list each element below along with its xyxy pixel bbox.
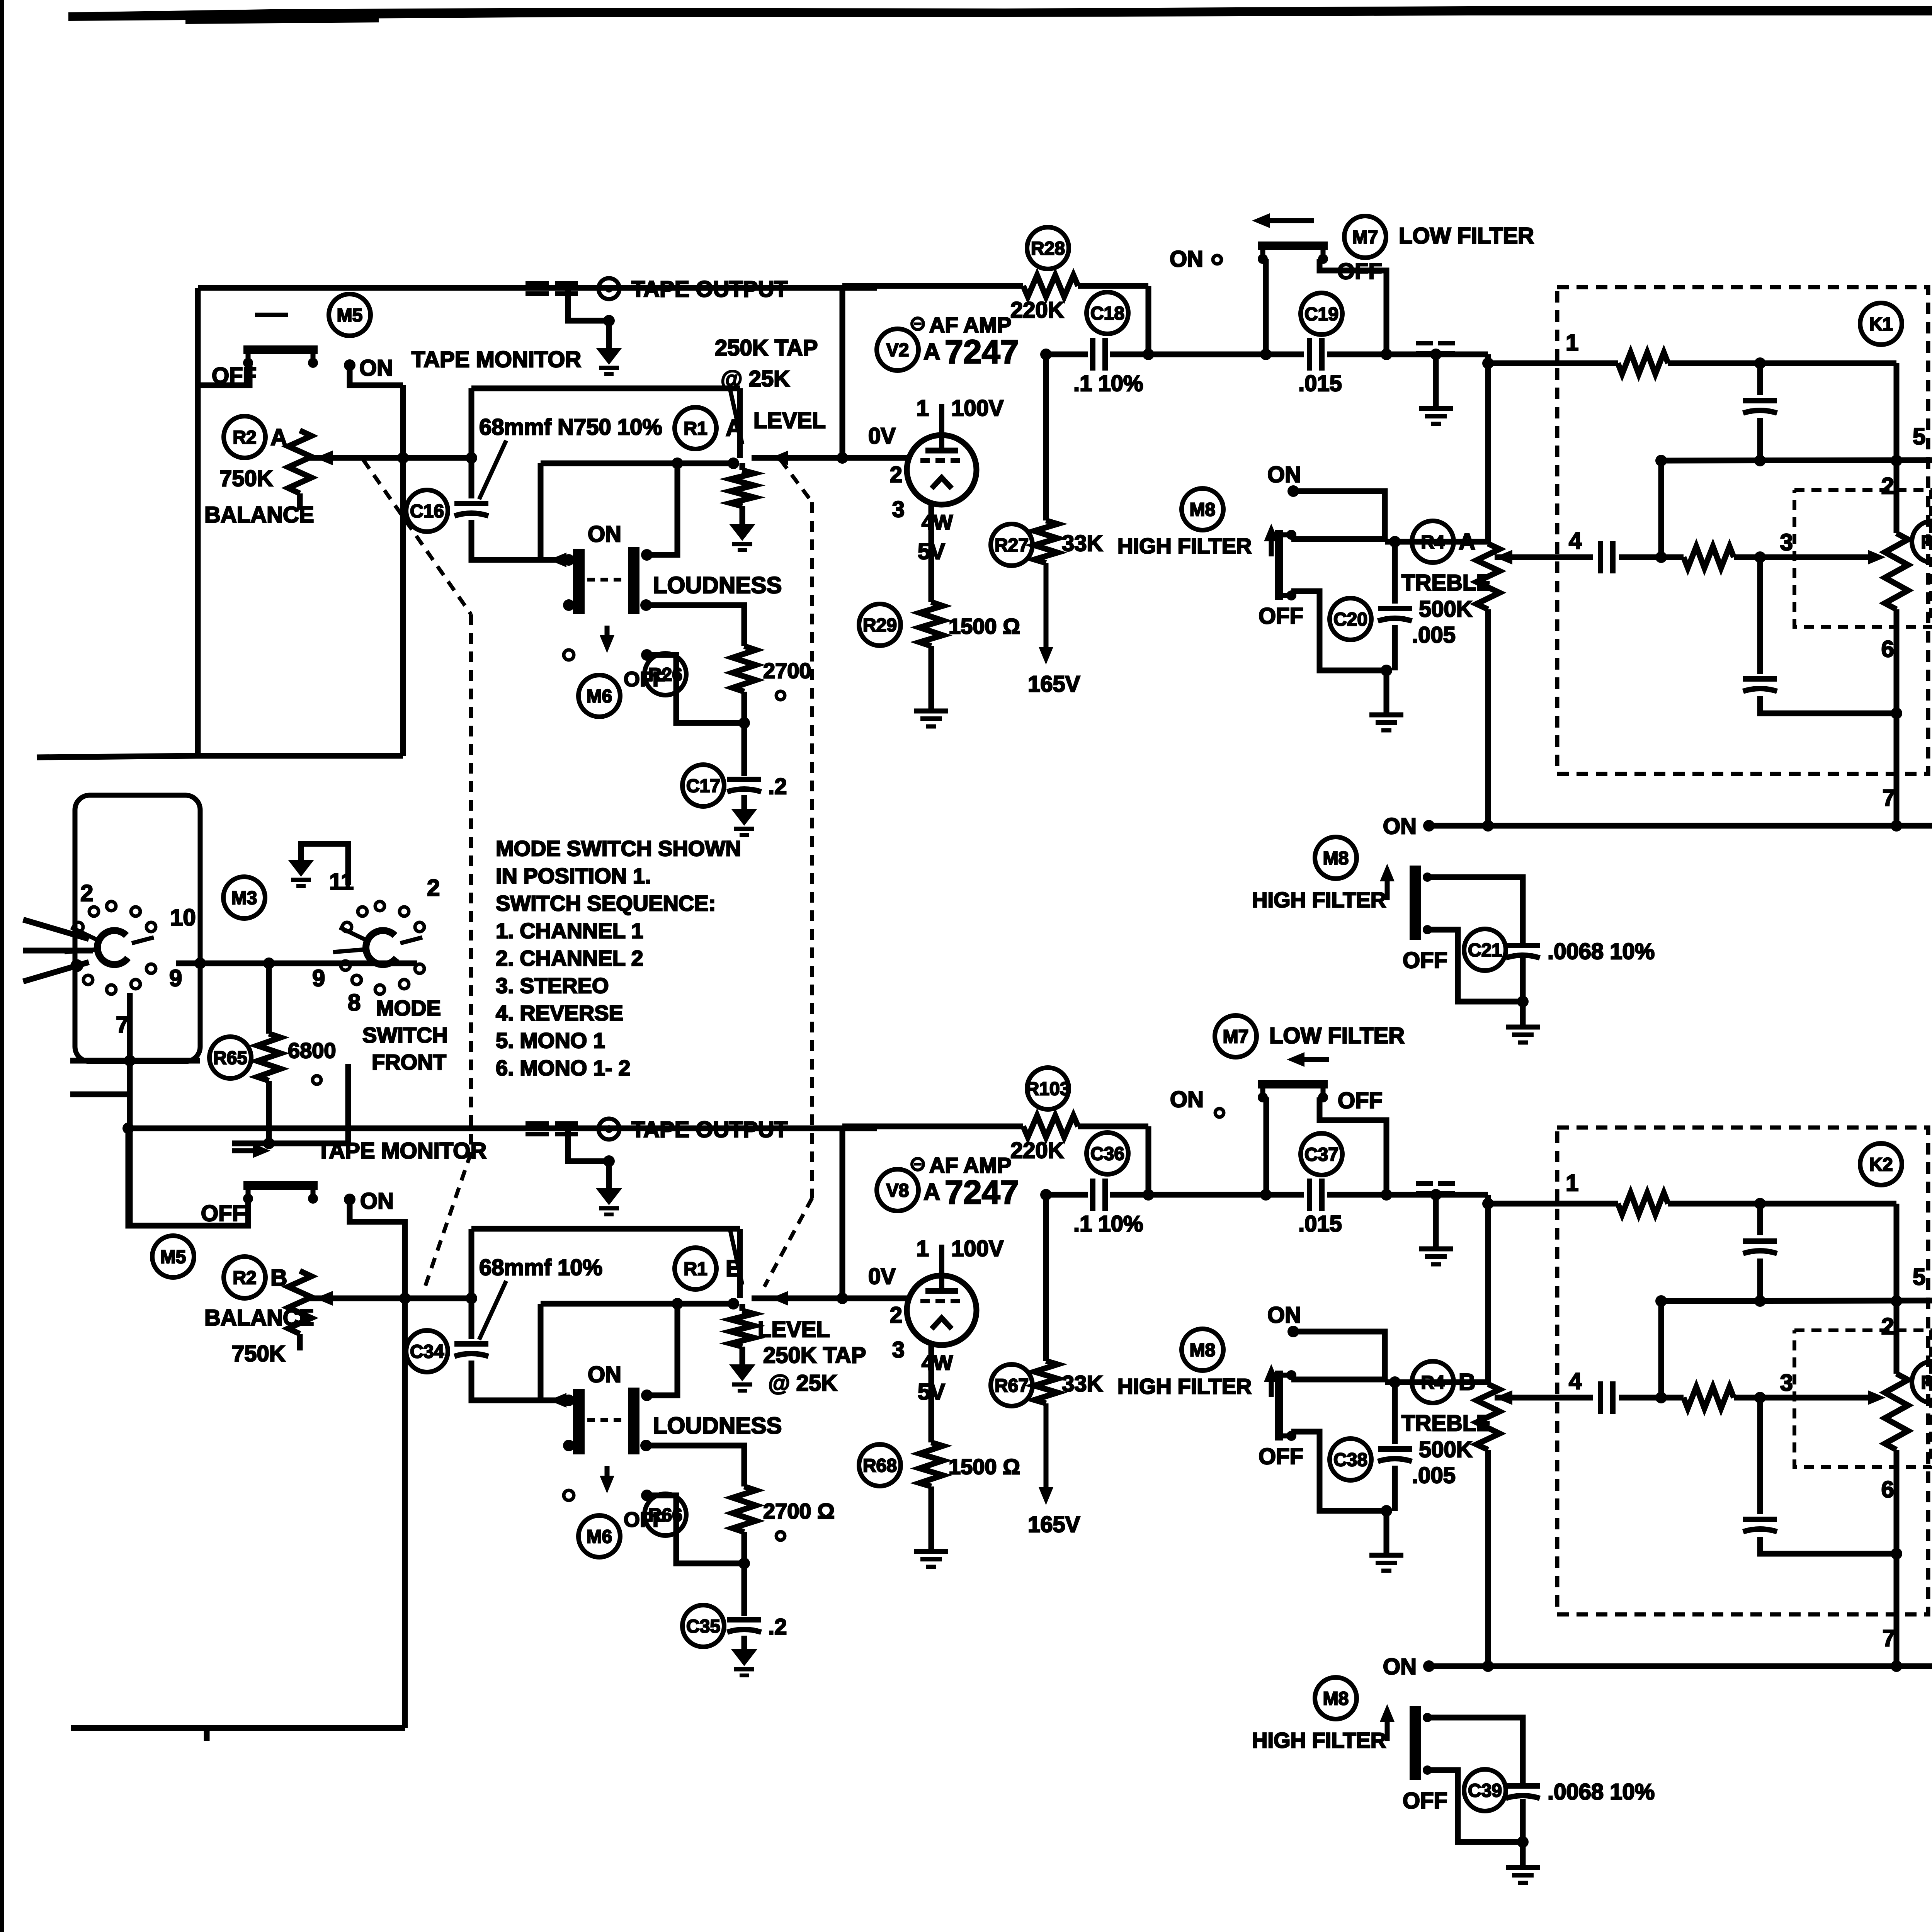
wire: [469, 388, 474, 458]
wire stub: [37, 756, 198, 757]
svg-text:M7: M7: [1352, 227, 1378, 248]
tube V2A: [907, 404, 976, 505]
wire: [1427, 1770, 1523, 1842]
wire inner box: [538, 1304, 544, 1400]
svg-text:ON: ON: [359, 355, 393, 381]
junction: [640, 1440, 652, 1451]
junction: [1754, 551, 1766, 563]
wire: [471, 1361, 565, 1400]
svg-text:C38: C38: [1333, 1450, 1367, 1470]
junction: [641, 649, 653, 661]
wire: [1894, 609, 1900, 826]
junction: [1754, 455, 1766, 466]
designator R66: [645, 1494, 686, 1536]
arrow to 165V: [1039, 563, 1053, 665]
svg-text:C21: C21: [1468, 940, 1502, 961]
wire: [1427, 930, 1523, 1002]
svg-text:OFF: OFF: [1259, 1444, 1303, 1469]
wire: [1320, 1097, 1386, 1195]
wire grid loop A: [840, 286, 845, 458]
wire cathode: [929, 1345, 934, 1442]
leader line: [730, 390, 742, 444]
junction: [837, 1293, 848, 1304]
wire node5: [1661, 1300, 1932, 1301]
designator C34: [406, 1330, 448, 1372]
svg-text:1. CHANNEL 1: 1. CHANNEL 1: [496, 918, 643, 943]
ground: [1506, 1867, 1540, 1883]
svg-text:IN POSITION 1.: IN POSITION 1.: [496, 864, 651, 888]
junction: [466, 452, 477, 464]
junction: [1381, 1189, 1392, 1201]
junction: [672, 457, 683, 469]
svg-text:A: A: [923, 1179, 940, 1205]
contact: [564, 1490, 574, 1500]
svg-text:0V: 0V: [868, 1264, 896, 1289]
wire: [198, 363, 250, 385]
wire bottom: [71, 1725, 405, 1731]
wire: [350, 1199, 405, 1728]
ground: [596, 1188, 622, 1214]
wire: [646, 605, 744, 646]
wire: [266, 963, 272, 1034]
wire: [1520, 958, 1526, 1027]
ground: [731, 809, 757, 835]
junction: [1891, 1660, 1902, 1672]
capacitor C21: [1506, 946, 1540, 958]
ground: [1369, 715, 1403, 730]
svg-text:1500 Ω: 1500 Ω: [949, 614, 1020, 638]
wire: [469, 1298, 474, 1339]
junction: [1891, 1548, 1902, 1560]
wire: [232, 1141, 348, 1146]
resistor R65: [257, 1034, 281, 1081]
svg-text:220K: 220K: [1010, 1138, 1064, 1163]
svg-text:LEVEL: LEVEL: [753, 408, 826, 433]
switch M7 bar: [1258, 1084, 1328, 1102]
wire: [1757, 1259, 1763, 1301]
designator C36: [1087, 1133, 1128, 1174]
svg-text:.015: .015: [1298, 371, 1342, 396]
svg-text:M6: M6: [587, 1527, 612, 1547]
contact: [1215, 1109, 1224, 1117]
wire level line: [309, 1296, 471, 1301]
connector dashes: [1416, 343, 1455, 353]
svg-text:4: 4: [1569, 1368, 1582, 1394]
arrowhead: [549, 1393, 566, 1408]
capacitor network top: [1743, 401, 1777, 413]
junction: [1754, 1198, 1766, 1209]
ground: [1506, 1027, 1540, 1043]
designator R68: [859, 1444, 901, 1486]
mechanical link dashed: [469, 614, 473, 1153]
junction: [1287, 485, 1299, 497]
contact: [1423, 1765, 1432, 1775]
designator R3: [1912, 1361, 1932, 1403]
junction: [1423, 1660, 1435, 1672]
arrowhead treble wiper: [1495, 1390, 1512, 1405]
arrowhead level wiper: [770, 1291, 788, 1306]
wire tape output line: [128, 1126, 877, 1131]
wire node1: [1488, 1201, 1618, 1207]
svg-text:33K: 33K: [1062, 531, 1103, 556]
wire box right: [400, 385, 406, 756]
leader line: [479, 1281, 506, 1340]
svg-text:TAPE OUTPUT: TAPE OUTPUT: [631, 277, 788, 302]
wire inner box: [538, 463, 544, 560]
mechanical link dashed: [781, 460, 812, 502]
capacitor C18: [1093, 338, 1105, 371]
svg-text:10: 10: [170, 905, 196, 930]
contact: [1213, 255, 1221, 264]
wire: [1320, 259, 1386, 354]
wire level line: [752, 1296, 842, 1301]
switch M6 plate: [573, 1389, 585, 1454]
resistor network: [1618, 1193, 1668, 1214]
wire: [1293, 491, 1385, 542]
tube V8A: [907, 1245, 976, 1345]
arrow: [1380, 1704, 1395, 1741]
wire: [297, 493, 303, 510]
svg-text:.2: .2: [768, 774, 787, 799]
designator R67: [991, 1364, 1032, 1406]
wire contact 7 vertical: [127, 993, 133, 1226]
junction: [399, 1293, 411, 1304]
svg-text:TAPE MONITOR: TAPE MONITOR: [412, 347, 581, 372]
svg-text:1: 1: [1566, 1170, 1578, 1196]
wire: [742, 692, 747, 776]
capacitor C35: [727, 1620, 761, 1632]
wire: [176, 961, 417, 966]
wire box top: [471, 1226, 740, 1232]
junction: [1143, 1189, 1154, 1201]
wire: [1658, 461, 1664, 557]
svg-text:1500 Ω: 1500 Ω: [949, 1454, 1020, 1479]
wire: [1894, 1301, 1900, 1374]
network box K1: [1557, 287, 1928, 774]
svg-text:C20: C20: [1333, 609, 1367, 630]
capacitor network top: [1743, 1241, 1777, 1253]
wire: [1734, 1395, 1877, 1401]
svg-text:11: 11: [329, 869, 354, 895]
svg-text:750K: 750K: [219, 466, 273, 491]
wire: [1291, 591, 1386, 715]
wire inner box top: [541, 461, 733, 466]
switch M8: [1315, 837, 1357, 879]
svg-text:K1: K1: [1869, 314, 1893, 335]
scan edge strip: [0, 0, 4, 1932]
designator R29: [859, 604, 901, 646]
wire: [1619, 554, 1684, 560]
svg-text:5. MONO 1: 5. MONO 1: [496, 1028, 605, 1053]
wire: [1894, 363, 1900, 461]
arrowhead level wiper: [770, 451, 788, 465]
svg-text:.0068 10%: .0068 10%: [1548, 1779, 1655, 1804]
wire: [1291, 536, 1385, 542]
junction: [466, 1293, 477, 1304]
svg-text:M8: M8: [1190, 500, 1216, 520]
capacitor C20: [1378, 609, 1412, 621]
svg-text:M8: M8: [1323, 848, 1349, 869]
wire: [1658, 1301, 1664, 1398]
switch M7: [1344, 216, 1386, 258]
junction: [1430, 349, 1442, 360]
junction: [1423, 820, 1435, 832]
designator M3: [223, 877, 265, 918]
capacitor C39: [1506, 1786, 1540, 1798]
svg-text:.2: .2: [768, 1614, 787, 1639]
resistor R26: [733, 646, 756, 692]
arrowhead bass wiper: [1868, 1390, 1886, 1405]
arrowhead treble wiper: [1495, 550, 1512, 565]
switch M6 plate: [628, 547, 639, 614]
svg-text:7: 7: [1883, 785, 1895, 811]
wire: [742, 795, 747, 809]
ground: [914, 711, 948, 726]
wire: [1495, 1395, 1593, 1401]
wire: [1291, 1377, 1385, 1383]
svg-text:R1: R1: [684, 1259, 707, 1279]
scan top bar: [68, 4, 1932, 21]
svg-text:R1: R1: [684, 418, 707, 439]
contact: [313, 1076, 321, 1084]
switch M7 bar: [1258, 246, 1328, 264]
capacitor C19: [1310, 338, 1322, 371]
wire: [1757, 1204, 1763, 1235]
wire: [1043, 1195, 1049, 1361]
svg-text:R2: R2: [233, 1268, 256, 1288]
junction: [640, 599, 652, 611]
svg-text:.1 10%: .1 10%: [1073, 1211, 1143, 1236]
junction: [738, 1558, 750, 1569]
wire: [297, 1334, 303, 1350]
potentiometer R4: [1476, 1384, 1500, 1450]
svg-text:C18: C18: [1090, 303, 1124, 324]
arrowhead bass wiper: [1868, 550, 1886, 565]
junction: [263, 957, 275, 969]
resistor R66: [733, 1486, 756, 1532]
svg-text:OFF: OFF: [201, 1201, 246, 1226]
svg-text:.005: .005: [1412, 1463, 1456, 1488]
wire: [929, 646, 934, 711]
svg-text:ON: ON: [588, 1362, 621, 1387]
svg-text:6. MONO 1- 2: 6. MONO 1- 2: [496, 1056, 631, 1080]
svg-text:M5: M5: [160, 1247, 186, 1267]
resistor R27: [1034, 520, 1058, 563]
svg-text:220K: 220K: [1010, 298, 1064, 323]
wire: [1760, 696, 1896, 713]
svg-text:C19: C19: [1304, 304, 1338, 325]
svg-text:5: 5: [1913, 1264, 1925, 1290]
junction: [1891, 455, 1902, 466]
leader line: [479, 440, 506, 499]
svg-text:R27: R27: [995, 535, 1029, 556]
designator R4: [1412, 1361, 1454, 1403]
wire: [737, 388, 743, 458]
svg-text:250K TAP: 250K TAP: [763, 1343, 866, 1368]
junction: [837, 452, 848, 464]
junction: [563, 1395, 575, 1406]
wire: [1291, 1432, 1386, 1555]
switch M8 bar: [1279, 1370, 1296, 1441]
designator R1: [675, 407, 716, 449]
inner dashed box: [1794, 1330, 1931, 1467]
junction: [563, 554, 575, 566]
junction: [1891, 707, 1902, 719]
mechanical link dashed: [425, 1153, 471, 1287]
wire: [1894, 1450, 1900, 1666]
wire level line: [752, 455, 842, 461]
designator C17: [682, 765, 724, 806]
svg-text:8: 8: [348, 990, 361, 1015]
wire: [1110, 352, 1304, 357]
wire: [128, 1128, 248, 1226]
designator R26: [645, 653, 686, 695]
svg-text:R65: R65: [213, 1048, 247, 1068]
wire: [345, 1064, 351, 1143]
wire ON return: [1429, 1663, 1932, 1669]
wire: [1327, 352, 1488, 357]
wire tick: [204, 1728, 210, 1741]
wire: [1392, 625, 1398, 670]
designator R28: [1027, 227, 1069, 269]
svg-text:M3: M3: [231, 888, 257, 908]
svg-text:ON: ON: [1170, 247, 1203, 272]
wire: [471, 520, 565, 560]
potentiometer R2: [288, 1271, 311, 1334]
svg-text:R29: R29: [863, 615, 897, 636]
svg-text:.005: .005: [1412, 622, 1456, 648]
wire: [1078, 1124, 1148, 1129]
switch M7: [1215, 1015, 1257, 1057]
arrow: [600, 1466, 614, 1493]
resistor R67: [1034, 1361, 1058, 1403]
svg-text:2. CHANNEL 2: 2. CHANNEL 2: [496, 946, 643, 970]
svg-text:3. STEREO: 3. STEREO: [496, 973, 609, 998]
svg-text:B: B: [1459, 1369, 1475, 1395]
capacitor network bottom: [1743, 1519, 1777, 1532]
svg-text:LOUDNESS: LOUDNESS: [653, 1413, 782, 1439]
network box K2: [1557, 1128, 1928, 1614]
wire cathode: [929, 505, 934, 602]
wire: [1293, 1332, 1385, 1382]
connector dashes: [1416, 1184, 1455, 1194]
wire: [1619, 1395, 1684, 1401]
svg-text:2: 2: [1881, 473, 1894, 499]
switch M8: [1182, 1329, 1223, 1371]
wire: [1433, 354, 1439, 408]
svg-text:OFF: OFF: [1259, 604, 1303, 629]
junction: [738, 717, 750, 729]
junction: [1517, 1836, 1529, 1848]
wire: [1757, 363, 1763, 395]
potentiometer R4: [1476, 544, 1500, 609]
contact: [1423, 925, 1432, 934]
wire: [1427, 877, 1523, 945]
svg-text:5: 5: [1913, 423, 1925, 449]
mode switch box: [75, 795, 200, 1061]
svg-text:2: 2: [890, 1303, 902, 1328]
wire: [1485, 354, 1491, 544]
junction: [1482, 357, 1494, 369]
wire: [568, 289, 609, 348]
svg-text:R103: R103: [1026, 1079, 1070, 1099]
arrowhead balance wiper: [315, 451, 333, 465]
designator C38: [1330, 1439, 1371, 1480]
junction: [1260, 349, 1272, 360]
wire grid loop B: [840, 1126, 845, 1298]
svg-text:3: 3: [892, 1337, 905, 1362]
svg-text:TAPE OUTPUT: TAPE OUTPUT: [631, 1117, 788, 1142]
svg-text:OFF: OFF: [624, 1508, 665, 1531]
junction: [1389, 536, 1401, 548]
svg-text:500K: 500K: [1419, 597, 1473, 622]
switch M6: [578, 1515, 620, 1557]
svg-text:4: 4: [1569, 528, 1582, 554]
wire to treble pot: [1385, 539, 1488, 545]
ground: [729, 524, 755, 550]
connector dashes: [526, 283, 578, 294]
svg-text:A: A: [1459, 529, 1475, 554]
contact: [776, 691, 785, 700]
arrowhead: [549, 553, 566, 567]
svg-text:ON: ON: [1267, 462, 1301, 487]
dashed link: [587, 1418, 626, 1422]
junction: [344, 359, 355, 371]
svg-text:M7: M7: [1223, 1027, 1249, 1047]
wire: [1146, 1126, 1151, 1195]
wire grid input: [842, 455, 909, 461]
potentiometer R1: [731, 1311, 754, 1347]
jack TAPE OUTPUT: [599, 278, 619, 299]
svg-text:.0068 10%: .0068 10%: [1548, 939, 1655, 964]
junction: [1482, 1198, 1494, 1209]
junction: [1891, 1295, 1902, 1307]
svg-text:500K: 500K: [1419, 1437, 1473, 1462]
junction: [1655, 455, 1667, 466]
contact: [1423, 1713, 1432, 1722]
svg-text:2: 2: [80, 880, 93, 906]
arrow: [232, 1143, 270, 1158]
switch M6 plate: [628, 1388, 639, 1454]
junction: [1754, 1392, 1766, 1403]
svg-text:LEVEL: LEVEL: [758, 1317, 830, 1342]
svg-text:33K: 33K: [1062, 1371, 1103, 1396]
junction: [344, 1194, 355, 1205]
potentiometer R2: [288, 430, 311, 493]
svg-text:6: 6: [1881, 1476, 1894, 1502]
designator R103: [1026, 1068, 1070, 1109]
svg-text:HIGH FILTER: HIGH FILTER: [1117, 534, 1252, 558]
wire: [1485, 1450, 1491, 1666]
capacitor C16: [454, 503, 488, 516]
svg-text:LOW FILTER: LOW FILTER: [1399, 223, 1534, 248]
junction: [1381, 665, 1392, 676]
designator K1: [1860, 303, 1902, 345]
junction: [641, 1490, 653, 1501]
svg-text:.1 10%: .1 10%: [1073, 371, 1143, 396]
wire grid input: [842, 1296, 909, 1301]
svg-text:OFF: OFF: [1403, 948, 1447, 973]
svg-text:3: 3: [1780, 529, 1793, 555]
svg-text:7247: 7247: [945, 333, 1019, 371]
wire stub: [70, 1092, 130, 1097]
svg-text:OFF: OFF: [1403, 1788, 1447, 1813]
wire stub: [70, 1058, 200, 1064]
arrowhead balance wiper: [315, 1291, 333, 1306]
wire: [1263, 259, 1269, 354]
junction: [603, 315, 615, 327]
ground: [731, 1649, 757, 1675]
